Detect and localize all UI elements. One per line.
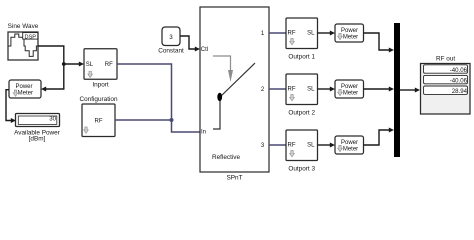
icon ctl arrow (grey) (213, 56, 231, 71)
wire SPnT port1 to Outport1 (269, 32, 286, 34)
svg-text:Meter: Meter (343, 147, 358, 153)
svg-text:Inport: Inport (92, 81, 109, 88)
wire junction to Power Meter (46, 64, 64, 89)
block Outport 1 (286, 18, 318, 49)
svg-text:28.94: 28.94 (452, 88, 468, 95)
svg-text:SL: SL (307, 87, 315, 93)
block Configuration (82, 104, 115, 137)
block Power Meter 3 (335, 136, 364, 154)
svg-text:DSP: DSP (25, 34, 37, 40)
icon switch arm (220, 63, 256, 98)
svg-text:RF: RF (288, 87, 296, 93)
wire Power Meter 3 to Mux (364, 130, 391, 145)
wire Outport3 SL to Power Meter 3 (318, 144, 332, 146)
wire Configuration RF to junction (115, 119, 172, 121)
block Outport 2 (286, 74, 318, 105)
svg-text:In: In (201, 130, 206, 136)
wire Power Meter 2 to Mux (364, 88, 391, 90)
wire SPnT port3 to Outport3 (269, 144, 286, 146)
svg-text:Power: Power (341, 140, 358, 146)
svg-text:SL: SL (86, 62, 94, 68)
block Constant value 3 (162, 27, 180, 46)
svg-text:Reflective: Reflective (212, 154, 241, 161)
svg-text:Constant: Constant (158, 47, 184, 54)
wire Constant to SPnT Ctl (180, 36, 196, 49)
wire Outport1 SL to Power Meter 1 (318, 32, 332, 34)
svg-text:Ctl: Ctl (201, 47, 208, 53)
wire Power Meter 1 to Mux (364, 33, 391, 50)
block Power Meter (left, mirrored) (9, 80, 41, 98)
display Available Power [dBm] value 30 (16, 114, 60, 127)
svg-text:Outport 1: Outport 1 (288, 54, 315, 61)
svg-text:SPnT: SPnT (227, 175, 243, 182)
svg-text:Outport 3: Outport 3 (288, 166, 315, 173)
svg-text:Meter: Meter (343, 91, 358, 97)
svg-text:Power: Power (341, 28, 358, 34)
svg-text:SL: SL (307, 143, 315, 149)
svg-text:Configuration: Configuration (79, 96, 117, 103)
display RF out (421, 64, 471, 115)
svg-text:30: 30 (49, 116, 56, 123)
svg-text:-40.06: -40.06 (450, 78, 468, 85)
svg-text:-40.06: -40.06 (450, 67, 468, 74)
wire Sine Wave to Inport SL (38, 46, 80, 64)
svg-text:Power: Power (15, 84, 32, 90)
mux bar (394, 23, 400, 157)
svg-text:RF: RF (95, 118, 103, 124)
wire Outport2 SL to Power Meter 2 (318, 88, 332, 90)
wire SPnT port2 to Outport2 (269, 88, 286, 90)
svg-text:[dBm]: [dBm] (29, 135, 46, 142)
svg-text:Meter: Meter (18, 91, 33, 97)
svg-text:RF: RF (288, 143, 296, 149)
svg-text:RF out: RF out (436, 55, 455, 62)
block Sine Wave (8, 32, 38, 60)
block Outport 3 (286, 130, 318, 161)
icon in feed line (213, 101, 220, 129)
svg-text:3: 3 (169, 34, 173, 41)
icon switch pivot (217, 93, 222, 101)
svg-text:Power: Power (341, 84, 358, 90)
node junction (62, 62, 66, 66)
svg-text:RF: RF (105, 62, 113, 68)
block Power Meter 2 (335, 80, 364, 98)
svg-text:RF: RF (288, 31, 296, 37)
svg-text:SL: SL (307, 31, 315, 37)
wire Inport RF to SPnT In (117, 64, 200, 132)
node junction RF (170, 118, 174, 122)
block Power Meter 1 (335, 24, 364, 42)
svg-text:Meter: Meter (343, 35, 358, 41)
block Inport (84, 49, 117, 79)
svg-text:Outport 2: Outport 2 (288, 110, 315, 117)
block SPnT (Reflective) (200, 7, 269, 172)
wire Power Meter to Available Power display (6, 90, 12, 121)
svg-text:Sine Wave: Sine Wave (8, 23, 39, 30)
wire Mux to RF out display (400, 89, 416, 91)
